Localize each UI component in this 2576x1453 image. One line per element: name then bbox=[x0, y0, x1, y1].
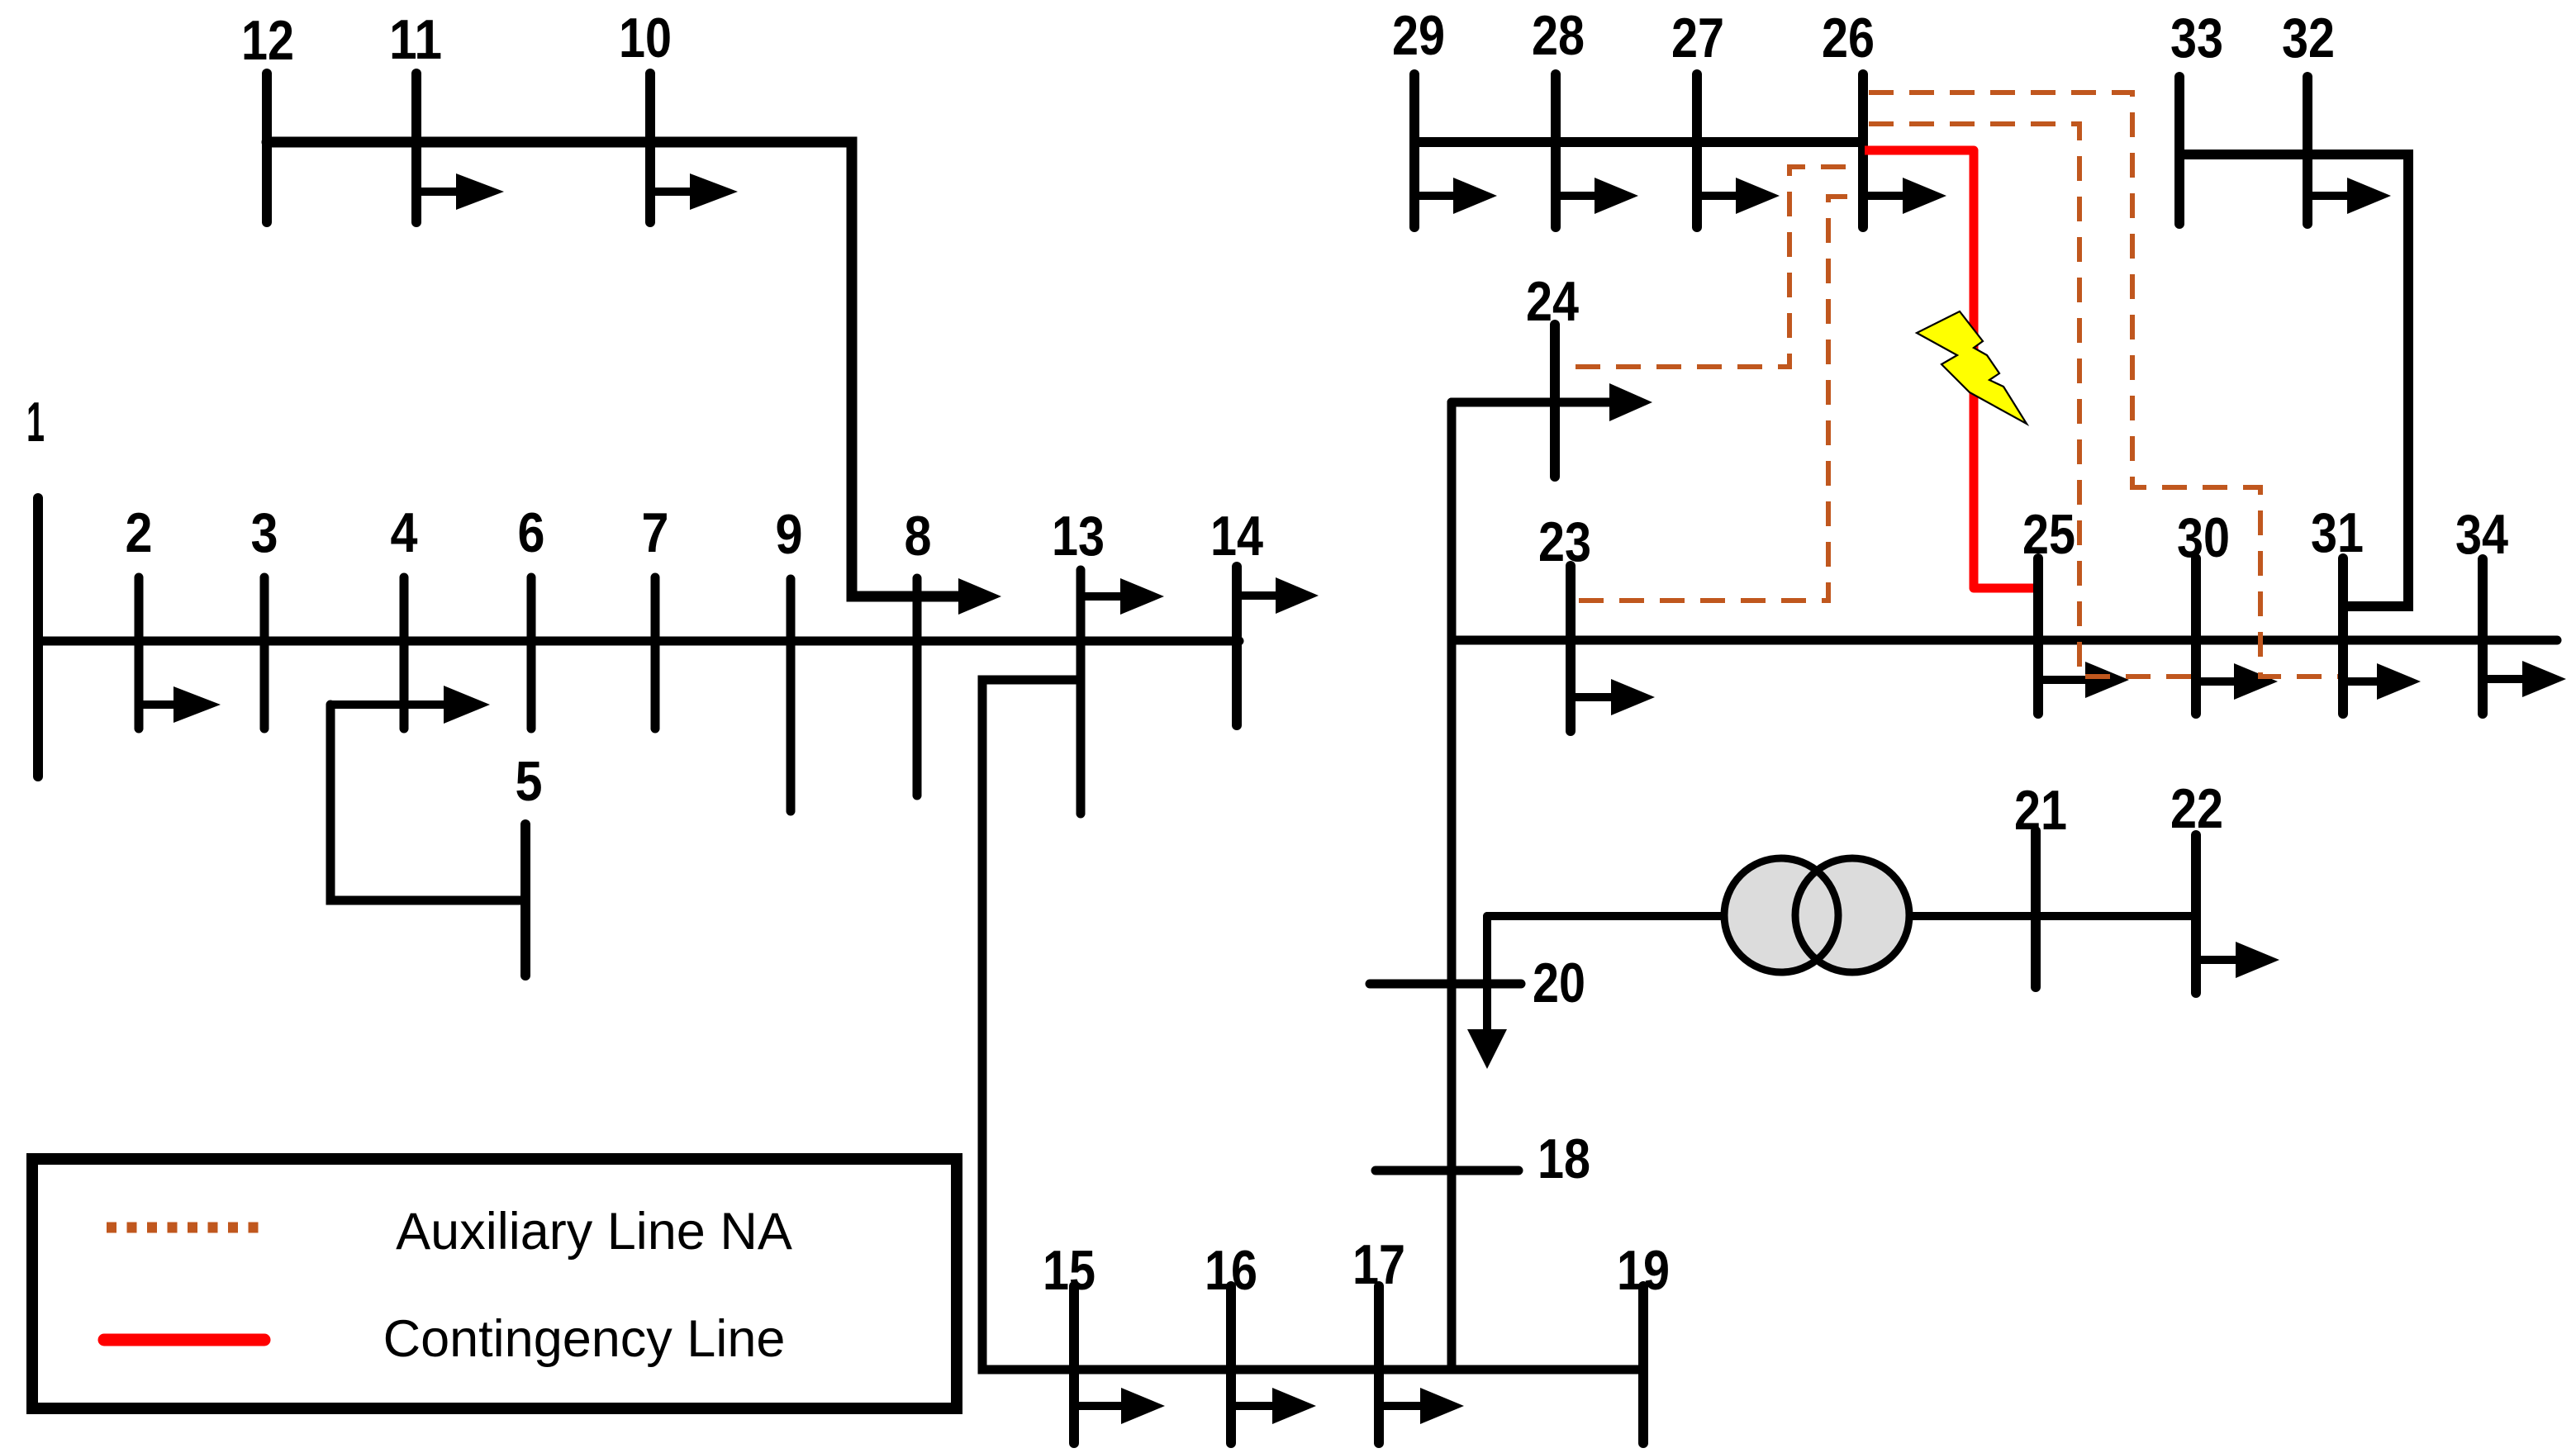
svg-text:26: 26 bbox=[1822, 7, 1875, 69]
svg-text:16: 16 bbox=[1205, 1239, 1257, 1302]
svg-text:18: 18 bbox=[1538, 1128, 1590, 1190]
svg-text:7: 7 bbox=[642, 501, 669, 564]
svg-text:Auxiliary Line NA: Auxiliary Line NA bbox=[396, 1203, 792, 1261]
svg-text:20: 20 bbox=[1533, 952, 1585, 1014]
svg-text:8: 8 bbox=[905, 505, 932, 567]
svg-text:31: 31 bbox=[2311, 501, 2364, 564]
svg-text:30: 30 bbox=[2177, 506, 2230, 569]
svg-text:11: 11 bbox=[389, 8, 442, 71]
svg-text:27: 27 bbox=[1671, 7, 1724, 69]
svg-text:5: 5 bbox=[516, 750, 543, 813]
svg-text:34: 34 bbox=[2455, 503, 2508, 566]
svg-text:23: 23 bbox=[1538, 510, 1591, 573]
svg-text:28: 28 bbox=[1532, 4, 1585, 67]
svg-text:24: 24 bbox=[1526, 270, 1579, 333]
svg-text:14: 14 bbox=[1210, 505, 1263, 567]
svg-text:4: 4 bbox=[391, 501, 418, 564]
svg-text:32: 32 bbox=[2282, 7, 2335, 69]
svg-text:21: 21 bbox=[2014, 779, 2067, 842]
svg-text:22: 22 bbox=[2170, 777, 2223, 840]
svg-text:17: 17 bbox=[1352, 1233, 1405, 1296]
svg-text:29: 29 bbox=[1392, 4, 1445, 67]
svg-text:Contingency Line: Contingency Line bbox=[383, 1310, 786, 1368]
svg-text:33: 33 bbox=[2170, 7, 2223, 69]
svg-text:9: 9 bbox=[776, 503, 803, 566]
svg-text:2: 2 bbox=[126, 501, 153, 564]
svg-text:6: 6 bbox=[518, 501, 545, 564]
svg-text:1: 1 bbox=[26, 391, 45, 453]
svg-text:10: 10 bbox=[619, 7, 672, 69]
svg-text:25: 25 bbox=[2022, 503, 2075, 566]
svg-text:19: 19 bbox=[1617, 1239, 1670, 1302]
svg-text:13: 13 bbox=[1052, 505, 1105, 567]
svg-text:3: 3 bbox=[251, 501, 278, 564]
svg-text:15: 15 bbox=[1043, 1239, 1096, 1302]
svg-text:12: 12 bbox=[241, 9, 294, 72]
